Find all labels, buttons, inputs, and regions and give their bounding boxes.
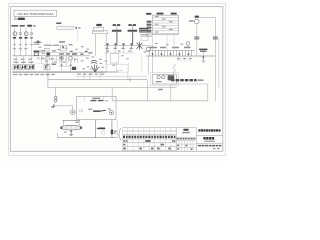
bottom feeder stub (57, 133, 59, 138)
wire stub (59, 65, 71, 67)
wire N (31, 28, 33, 56)
wire (199, 16, 215, 18)
caption light tail (198, 79, 204, 81)
wire riser A (47, 72, 49, 87)
company name row (198, 129, 220, 131)
terminal mark (20, 32, 22, 34)
label (186, 47, 191, 48)
junction block (34, 51, 40, 56)
breaker QF3 (28, 62, 35, 70)
annotation speckle C (155, 43, 183, 45)
capacitor C2 (128, 24, 138, 45)
bus band specks (70, 51, 88, 55)
wire (95, 34, 97, 56)
drawing title row (203, 137, 214, 140)
drawing number box (14, 10, 57, 16)
variac T2 winding line (94, 120, 96, 138)
wire drop (146, 80, 148, 101)
texture rails (36, 60, 58, 64)
control box (77, 96, 116, 119)
under-wireB tick text (158, 89, 163, 90)
corner stub (116, 62, 123, 70)
box row2 components (88, 108, 111, 112)
relay stack KA (147, 21, 152, 32)
label (189, 20, 194, 22)
resistor RB (long box) (56, 23, 80, 30)
bottom feeder (58, 137, 118, 139)
lamp HL (146, 47, 150, 51)
label: main circuit (14, 18, 24, 20)
title block left grid (176, 128, 196, 151)
ladder drop wires (167, 33, 174, 50)
fuse FU2 (19, 37, 22, 39)
annotation speckle A (39, 44, 90, 50)
label text (89, 52, 93, 53)
terminal strip bus (12, 71, 118, 73)
wire (151, 33, 153, 50)
lamp branch wires (48, 60, 71, 72)
wire row B (48, 87, 177, 89)
brace note (114, 128, 121, 140)
contact chain rail (104, 45, 151, 47)
dashed tie line (76, 30, 78, 41)
aux meter (186, 42, 189, 45)
variac specks (64, 122, 79, 133)
sub-comb labels (177, 58, 191, 59)
contactor KM2 (44, 64, 56, 70)
contactor box KM3 (59, 41, 73, 51)
brush blob (111, 130, 114, 135)
bus bar upper (39, 51, 90, 53)
sub-comb below right bus (178, 56, 190, 62)
comb labels (149, 47, 190, 48)
switch SB (202, 52, 205, 63)
wire L1 (13, 28, 15, 56)
wire drop into box (111, 88, 113, 97)
label QS (34, 42, 42, 45)
wire row A (48, 79, 147, 81)
wire drop (111, 96, 113, 101)
bus bar main left (12, 55, 90, 57)
coil symbol (173, 64, 175, 74)
motor symbol squiggle (91, 65, 99, 72)
faint link rail (104, 52, 136, 54)
comb rail (148, 49, 196, 51)
wire tick text (13, 48, 32, 59)
relay box K1 (150, 73, 178, 86)
wire drops to terminal row (16, 56, 67, 66)
chain cross ticks (108, 44, 132, 48)
relay blob (72, 67, 76, 70)
dark caption row (171, 79, 197, 81)
annotation speckle B (86, 56, 104, 67)
capacitor C3 (194, 37, 199, 40)
notes text block (139, 28, 151, 41)
wire L3 (25, 28, 27, 56)
transformer TC (92, 27, 107, 33)
wire (56, 105, 73, 107)
chain contacts (106, 43, 132, 45)
labels above bus (59, 53, 77, 59)
wire L2 (19, 28, 21, 56)
comb dark ticks (152, 53, 189, 55)
chain drops (108, 46, 132, 54)
wire drops mid (42, 56, 57, 64)
faint verticals (128, 57, 142, 72)
wire (196, 24, 198, 56)
wire (105, 34, 107, 52)
terminal labels right (77, 74, 104, 75)
phase labels L1 L2 L3 (11, 25, 36, 27)
brush column (111, 120, 113, 138)
wire (105, 52, 107, 72)
crossed switch cluster (137, 42, 143, 50)
label dark (199, 49, 208, 52)
enclosure outline (171, 84, 208, 101)
small box right of cluster (111, 54, 119, 63)
connector labels (146, 13, 151, 15)
title block right (196, 129, 222, 149)
plug CB (54, 96, 57, 102)
earth mark (51, 104, 55, 108)
mini comb under bus (60, 57, 78, 63)
terminal strip labels (13, 74, 55, 75)
faint return wire (117, 121, 119, 138)
wire (72, 106, 74, 110)
branch contact marks (47, 65, 72, 66)
lamp circles under bus (46, 56, 73, 60)
wire (214, 17, 216, 101)
wiper arrow (70, 130, 72, 134)
wire drops to relay box (148, 56, 152, 75)
wiper arrow T2 (96, 127, 105, 129)
breaker QF1 (13, 62, 20, 70)
box interior drops (85, 96, 104, 100)
BOM table grid (122, 128, 176, 151)
node blob (47, 53, 50, 56)
capacitor C1 (112, 24, 122, 45)
svg-text:NO-DA TD6C2WDJ23A: NO-DA TD6C2WDJ23A (18, 12, 54, 16)
indicator lamp (70, 110, 75, 115)
box row1 labels (91, 98, 108, 102)
rail drops (84, 72, 128, 80)
ammeter PA2 (24, 32, 28, 36)
BOM cell entries (123, 140, 175, 149)
transformer TC label (96, 24, 102, 26)
fuse FU4 (30, 37, 33, 38)
wire lower rail (76, 75, 147, 77)
extra speckle (37, 53, 129, 70)
faint box over rails (106, 64, 128, 72)
terminal ladder XT (153, 15, 179, 34)
mid band labels (41, 50, 57, 59)
box inner lamp (80, 109, 83, 112)
wire (218, 38, 220, 88)
fuse FU1 (13, 37, 16, 39)
bus bar right (146, 55, 215, 57)
pilot meter (109, 110, 113, 114)
terminal mark (31, 32, 33, 34)
ammeter PA1 (13, 32, 17, 36)
comb teeth (150, 50, 192, 56)
breaker QF2 (21, 62, 28, 70)
variac T1 top bar (63, 120, 80, 125)
BOM header row text (123, 136, 175, 139)
fuse FU3 (24, 37, 27, 39)
label KM1 (37, 41, 40, 44)
bottom rail (112, 100, 208, 102)
faint dial (101, 131, 105, 135)
contact block (45, 48, 50, 51)
drawing number row (198, 145, 222, 147)
wire (75, 111, 77, 113)
lamp side marks (144, 46, 154, 52)
voltmeter branch: top tap (195, 16, 199, 18)
ground branch wire (55, 88, 57, 97)
label text (44, 45, 51, 46)
ground (69, 134, 73, 135)
overload FR squiggle (91, 61, 97, 64)
label text (53, 45, 59, 46)
contact ticks (13, 44, 32, 45)
capacitor C4 (213, 37, 218, 40)
voltmeter PV (195, 19, 200, 24)
chain under-labels (105, 48, 132, 52)
junction tick (129, 78, 131, 82)
variac T1 winding (60, 125, 82, 130)
